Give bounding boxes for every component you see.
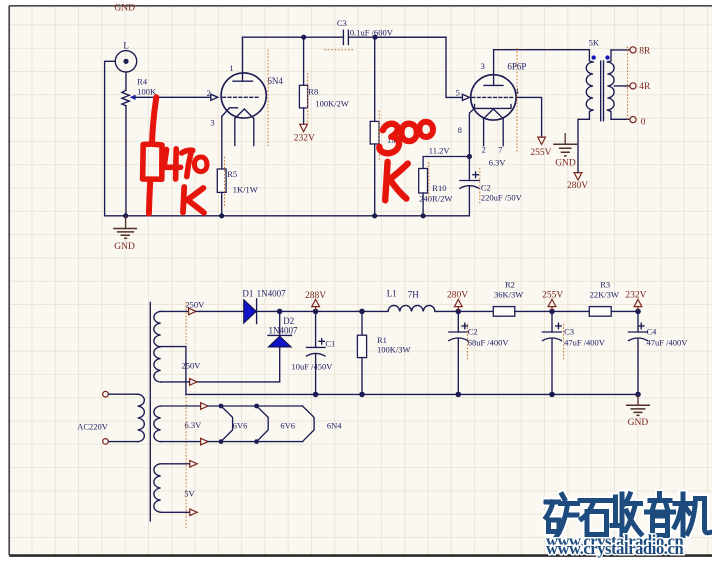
svg-text:280V: 280V (567, 181, 588, 191)
power transformer T1 (77, 299, 205, 528)
wire HV center tap to ground rail (161, 347, 186, 395)
svg-text:GND: GND (114, 4, 135, 14)
wire R3 to 232V node (611, 310, 638, 312)
power port 280V (567, 173, 588, 192)
node 280V (456, 309, 462, 315)
svg-text:250V: 250V (182, 360, 202, 370)
svg-text:R4: R4 (137, 76, 148, 86)
node C2 ground (456, 392, 462, 398)
svg-text:C1: C1 (325, 338, 335, 348)
node R1 ground (359, 392, 365, 398)
wire 6.3V bottom tap (161, 441, 201, 443)
heater bus top (208, 405, 303, 407)
svg-text:R1: R1 (377, 335, 387, 345)
svg-text:6.3V: 6.3V (185, 420, 203, 430)
orange marker at R10 (428, 162, 430, 199)
wire R10 to ground bus (422, 193, 424, 216)
svg-text:1N4007: 1N4007 (257, 289, 286, 299)
svg-text:36K/3W: 36K/3W (494, 289, 523, 299)
node heater 2 bottom (254, 439, 259, 444)
svg-text:10uF /450V: 10uF /450V (292, 361, 334, 371)
terminal 4R (630, 82, 651, 92)
node C3 right (372, 35, 377, 40)
diode D2 1N4007 (268, 311, 298, 347)
svg-text:7H: 7H (408, 289, 420, 299)
orange marker on T1 (185, 302, 187, 529)
orange marker at 6P6P (516, 48, 518, 153)
svg-text:C2: C2 (481, 183, 491, 193)
wire primary bottom to 280V (578, 119, 589, 172)
power port 255V (psu) (542, 291, 563, 312)
svg-text:D2: D2 (283, 316, 294, 326)
wire AC top to primary (108, 393, 137, 395)
wire jack to ground bus (105, 61, 116, 216)
resistor R8 100K/2W (299, 85, 349, 108)
svg-text:11.2V: 11.2V (429, 146, 451, 156)
arrow 6.3V top (201, 403, 208, 410)
orange marker at R5 (224, 157, 226, 208)
svg-text:100K: 100K (137, 87, 157, 97)
svg-text:68uF /400V: 68uF /400V (468, 338, 510, 348)
resistor R10 240R/2W (419, 169, 453, 204)
orange marker at output terminals (627, 47, 629, 122)
capacitor C2 220uF/50V (460, 157, 523, 216)
svg-text:C4: C4 (647, 327, 658, 337)
wire 5V top tap (161, 463, 190, 465)
svg-text:8: 8 (458, 125, 462, 135)
svg-text:232V: 232V (294, 134, 315, 144)
svg-text:2: 2 (207, 88, 211, 98)
ground symbol GND (mid) (553, 133, 577, 169)
svg-text:288V: 288V (305, 291, 326, 301)
svg-text:255V: 255V (530, 148, 551, 158)
svg-text:3: 3 (481, 61, 485, 71)
wire R4 bottom to ground bus (125, 106, 127, 216)
resistor R1 100K/3W (357, 311, 410, 394)
wire B+ rail (316, 310, 388, 312)
wire secondary top to 8R (611, 49, 630, 51)
node bus at R5 (219, 213, 224, 218)
red annotation 300K over R9 region (379, 122, 433, 201)
terminal 8R (630, 47, 651, 57)
orange marker at R8 (307, 73, 309, 124)
wire C3 right to grid node (348, 36, 446, 38)
5V winding (154, 464, 161, 512)
wire junction to R10 (423, 157, 469, 169)
heater bracket 6V6 (a) (221, 406, 233, 442)
wire jack to R4 (125, 72, 127, 90)
power port 255V (530, 137, 551, 158)
orange marker right of 6N4 (267, 50, 269, 147)
power port 232V (294, 124, 315, 143)
ground symbol GND (input) (113, 216, 137, 252)
svg-text:6.3V: 6.3V (489, 158, 507, 168)
node plate junction (301, 35, 306, 40)
resistor R3 22K/3W (589, 280, 619, 317)
HV secondary winding (154, 311, 161, 382)
arrow HV bottom tap (190, 379, 197, 386)
svg-text:255V: 255V (542, 291, 563, 301)
node bus at pot (123, 213, 128, 218)
wire R4 wiper to 6N4 grid (135, 96, 210, 98)
arrow 5V top (190, 461, 197, 468)
sheet border left (8, 6, 10, 556)
node 11.2V cathode junction (467, 154, 472, 159)
node heater 1 bottom (219, 439, 224, 444)
capacitor C1 10uF/450V (292, 311, 336, 394)
svg-text:47uF /400V: 47uF /400V (564, 338, 606, 348)
wire AC bottom to primary (108, 441, 137, 443)
ground rail (psu) (186, 393, 638, 395)
power port 288V (305, 291, 326, 311)
wire 5V bottom tap (161, 511, 190, 513)
capacitor C3 0.1uF/600V (337, 18, 394, 45)
svg-text:AC220V: AC220V (77, 421, 109, 431)
svg-text:100K/2W: 100K/2W (315, 98, 349, 108)
AC terminal top (103, 391, 109, 397)
output transformer T2 5K (586, 38, 614, 121)
resistor R2 36K/3W (493, 280, 523, 317)
svg-text:220uF /50V: 220uF /50V (481, 193, 523, 203)
heater bracket 6N4 (303, 406, 315, 442)
sheet border top (9, 5, 712, 7)
svg-text:47uF /400V: 47uF /400V (647, 338, 689, 348)
svg-text:R3: R3 (600, 280, 610, 290)
svg-text:2: 2 (482, 145, 486, 155)
orange marker C3 psu (563, 324, 565, 361)
B+ rail 288V node (313, 309, 319, 315)
node C4 ground (635, 392, 641, 398)
arrow HV top tap (189, 308, 196, 315)
heater bus bottom (208, 441, 303, 443)
svg-text:1: 1 (229, 63, 233, 73)
ground symbol GND (psu) (626, 394, 650, 428)
svg-text:5: 5 (456, 87, 460, 97)
svg-text:L1: L1 (387, 289, 397, 299)
svg-text:6V6: 6V6 (280, 420, 295, 430)
AC terminal bottom (103, 439, 109, 445)
orange marker under C3 (324, 49, 354, 51)
node D2 junction (277, 309, 283, 315)
svg-text:100K/3W: 100K/3W (377, 345, 411, 355)
orange marker at C2 (479, 168, 481, 206)
svg-text:D1: D1 (242, 288, 253, 298)
svg-text:22K/3W: 22K/3W (590, 289, 619, 299)
ground bus (top circuit) (105, 215, 470, 217)
svg-text:R2: R2 (505, 280, 515, 290)
svg-text:240R/2W: 240R/2W (419, 193, 452, 203)
capacitor C4 47uF/400V (629, 311, 689, 394)
resistor R5 1K/1W (217, 169, 258, 195)
pin 5 arrow (6P6P grid) (462, 94, 469, 100)
pin 2 arrow (6N4 grid) (211, 94, 218, 100)
6.3V winding (154, 406, 161, 442)
watermark crystalradio logo (546, 494, 710, 559)
wire node to R8 (303, 37, 305, 85)
pentode U2 6P6P (458, 50, 527, 168)
power port 280V (psu) (447, 291, 468, 312)
svg-text:4: 4 (515, 86, 520, 96)
svg-text:8R: 8R (639, 47, 651, 57)
node heater 2 top (254, 404, 259, 409)
node 255V (549, 309, 555, 315)
power port 232V (psu) (625, 291, 646, 312)
svg-text:280V: 280V (447, 291, 468, 301)
node bus at R10 (421, 213, 426, 218)
inductor L1 7H (387, 289, 435, 312)
wire 6N4 cathode to R5 (221, 117, 223, 170)
svg-text:6N4: 6N4 (267, 76, 283, 86)
wire R5 to ground bus (221, 192, 223, 215)
wire 6N4 plate to C3 left (243, 36, 344, 38)
wire D1 to 288V node (257, 310, 316, 312)
svg-text:1N4007: 1N4007 (269, 326, 298, 336)
svg-text:R5: R5 (227, 169, 237, 179)
svg-text:0: 0 (641, 117, 646, 127)
svg-text:GND: GND (628, 418, 649, 428)
svg-text:R8: R8 (308, 87, 318, 97)
sheet border bottom (9, 554, 712, 557)
node 232V (635, 309, 641, 315)
svg-text:GND: GND (114, 242, 135, 252)
node R1 top (359, 309, 365, 315)
wire secondary mid to 4R (614, 85, 630, 87)
wire L1 to 280V node (435, 310, 493, 312)
orange marker C2 psu (466, 324, 468, 361)
wire R8 to 232V port (303, 108, 305, 124)
primary winding (138, 394, 145, 442)
svg-text:232V: 232V (625, 291, 646, 301)
svg-text:6V6: 6V6 (233, 420, 248, 430)
svg-text:1K/1W: 1K/1W (233, 185, 258, 195)
svg-text:C3: C3 (564, 327, 574, 337)
terminal 0 (630, 117, 646, 128)
arrow 5V bottom (190, 509, 197, 516)
capacitor C2 68uF/400V (psu) (449, 311, 510, 394)
svg-text:GND: GND (555, 159, 576, 169)
node bus at R9 (372, 213, 377, 218)
resistor R9 (grid leak) (370, 37, 399, 216)
node C3 ground (549, 392, 555, 398)
wire D2 anode to HV bottom tap (197, 347, 280, 382)
svg-text:6N4: 6N4 (327, 420, 342, 430)
diode D1 1N4007 (242, 288, 286, 323)
svg-text:5K: 5K (589, 38, 600, 48)
input jack L (115, 40, 136, 72)
wire 6P6P plate to output transformer (494, 49, 590, 51)
svg-text:4R: 4R (639, 82, 651, 92)
wire R2 to 255V node (515, 310, 590, 312)
svg-text:R10: R10 (432, 183, 446, 193)
wire HV top tap (161, 310, 188, 312)
svg-text:L: L (123, 40, 128, 50)
arrow 6.3V bottom (201, 438, 208, 445)
wire HV bottom tap (161, 381, 190, 383)
wire C3 node to 6P6P grid (375, 37, 462, 97)
svg-text:3: 3 (210, 118, 214, 128)
capacitor C3 47uF/400V (psu) (543, 311, 606, 394)
core (149, 302, 151, 521)
orange marker at R9 (378, 111, 380, 161)
svg-text:0.1uF /600V: 0.1uF /600V (350, 27, 394, 37)
wire secondary bottom to 0 (611, 118, 630, 120)
potentiometer R4 100K (122, 76, 157, 105)
red annotation 470K over R4 region (143, 97, 207, 213)
wire 6.3V top tap (161, 405, 201, 407)
svg-text:7: 7 (498, 145, 502, 155)
node heater 1 top (219, 404, 224, 409)
triode U1 6N4 (210, 37, 283, 145)
svg-text:www.crystalradio.cn: www.crystalradio.cn (546, 539, 683, 558)
wire HV top tap to D1 (196, 310, 244, 312)
node C1 ground (313, 392, 319, 398)
heater bracket 6V6 (b) (257, 406, 269, 442)
wire 6P6P pin4 to 255V port (516, 97, 542, 137)
svg-text:C2: C2 (468, 327, 478, 337)
svg-text:C3: C3 (337, 18, 347, 28)
